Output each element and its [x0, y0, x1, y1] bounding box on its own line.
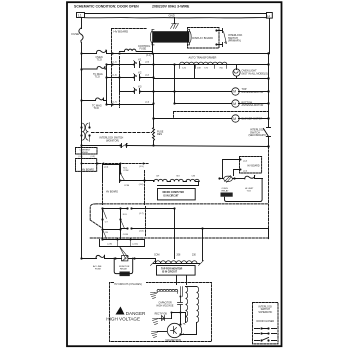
svg-text:COM: COM [154, 254, 159, 256]
svg-text:MAGNETRON: MAGNETRON [166, 339, 182, 342]
svg-text:COM: COM [123, 170, 128, 172]
wire dashed interconnect y163 [82, 163, 149, 165]
lamp oven light [233, 65, 240, 79]
switch col2 arm [121, 220, 125, 229]
svg-text:MICRO COMPUTER: MICRO COMPUTER [163, 192, 185, 194]
fuse AC line [96, 255, 105, 258]
pin labels rows [113, 62, 150, 104]
wire K3 feed vertical [120, 78, 135, 92]
svg-text:TCO: TCO [97, 59, 102, 62]
relay contact K1 [134, 59, 142, 68]
diode rectifier [160, 316, 172, 321]
svg-text:(J-4): (J-4) [104, 167, 109, 169]
svg-text:DISPLAY BOARD: DISPLAY BOARD [192, 36, 213, 40]
junction dots left bus [80, 52, 82, 146]
HV transformer primary [155, 289, 178, 293]
svg-text:(MONITOR): (MONITOR) [106, 139, 119, 142]
svg-text:M: M [233, 90, 236, 94]
svg-text:TCO: TCO [247, 191, 252, 193]
ground magnetron [152, 332, 158, 338]
relay contact K3 [134, 85, 142, 93]
svg-text:FA: FA [183, 323, 186, 326]
junction dot y180.6 [143, 179, 145, 181]
relay contact K2 row wire [107, 77, 154, 79]
svg-text:ANTENNA MOTOR: ANTENNA MOTOR [242, 91, 264, 94]
svg-text:COM: COM [124, 185, 129, 187]
lower tap labels [154, 254, 197, 256]
wire motor M1 row [175, 91, 269, 93]
svg-text:HV BOARD: HV BOARD [106, 191, 118, 194]
connector block loop [100, 240, 145, 247]
wire left bus mid [81, 43, 83, 259]
wire tap drop x194 [154, 65, 195, 79]
wire connector row y239.6 [103, 239, 145, 241]
svg-text:OVEN: OVEN [222, 188, 229, 190]
wire bottom row y104.4 [107, 104, 154, 106]
svg-text:HV BOARD: HV BOARD [248, 165, 260, 168]
motor M2 bottom antenna [232, 100, 239, 107]
svg-text:HV BOARD: HV BOARD [114, 30, 129, 34]
junction dots taps [152, 63, 175, 104]
svg-text:CB: CB [105, 232, 109, 234]
svg-text:(J-9): (J-9) [108, 244, 113, 246]
svg-text:RES: RES [157, 133, 162, 136]
svg-text:L1: L1 [78, 14, 82, 18]
junction dots relay row [218, 177, 235, 179]
relay board dashed top y111 [174, 112, 269, 119]
wire K3 row out [140, 91, 175, 93]
svg-text:L2: L2 [267, 14, 270, 18]
svg-text:(J-2): (J-2) [145, 75, 149, 77]
wire col1 vertical [102, 209, 104, 240]
svg-text:RECT-F-DB: RECT-F-DB [155, 314, 168, 316]
junction dots line y145.5 [119, 144, 127, 146]
ribbon cable to display board [150, 29, 191, 45]
svg-text:GND: GND [169, 14, 175, 18]
junction dots contact bases [133, 64, 142, 93]
border frame [67, 2, 282, 346]
svg-text:208: 208 [197, 68, 201, 70]
junction dots col1 [101, 207, 103, 240]
wire right bus upper [269, 19, 270, 128]
wire tap vertical x174.4 [174, 65, 176, 104]
thermal cutout HI LIMIT [245, 176, 263, 193]
svg-text:(J-4): (J-4) [145, 102, 149, 104]
contact row2 [126, 227, 132, 229]
coil tap labels [156, 176, 195, 178]
svg-text:M: M [233, 117, 236, 121]
svg-text:(J-6): (J-6) [113, 75, 117, 77]
HV circuit dashed box [110, 283, 212, 342]
relay contact K2 [134, 72, 142, 81]
note box below winding [157, 266, 196, 276]
HV transformer secondary [186, 287, 199, 323]
wire drops below winding [177, 276, 187, 285]
wire relay out y180.6 [121, 180, 154, 182]
svg-text:(SECONDARY): (SECONDARY) [249, 134, 267, 137]
svg-text:SCHEMATIC CONDITION: DOOR OPEN: SCHEMATIC CONDITION: DOOR OPEN [74, 5, 139, 9]
display board dashed box [188, 28, 220, 49]
svg-text:NO: NO [177, 176, 181, 178]
connector inline on left bus [82, 123, 90, 142]
junction dots line y53 [111, 52, 269, 54]
svg-text:HI LIMIT: HI LIMIT [245, 188, 254, 190]
terminal L2 [267, 13, 273, 19]
capacitor HV symbol [178, 297, 183, 313]
wire left bus from L1 [81, 18, 83, 29]
switch labels col2 [123, 214, 128, 236]
svg-text:RELAY: RELAY [222, 190, 230, 193]
svg-text:230: 230 [192, 254, 197, 256]
inductor control fuse choke [125, 49, 136, 51]
svg-text:(J-7): (J-7) [139, 213, 144, 215]
monitor switch label [100, 137, 124, 143]
svg-text:IS IN CIRCUIT: IS IN CIRCUIT [164, 195, 180, 197]
capacitor HV label [157, 302, 174, 308]
connector pins right box [240, 159, 242, 171]
wire sub bus x106.5 [106, 65, 108, 105]
ground symbol (mains) [171, 24, 179, 29]
svg-text:HIGH VOLTAGE: HIGH VOLTAGE [106, 317, 140, 322]
junction dots HV [171, 296, 182, 314]
svg-text:N.O.: N.O. [123, 214, 128, 216]
danger triangle [116, 307, 125, 315]
wire ground drop [174, 18, 176, 24]
junction dots connector [80, 126, 90, 136]
HV board dashed box (left lower) [76, 159, 97, 172]
oven relay label box [221, 188, 233, 197]
interlock schematic contact row 2 [255, 332, 277, 334]
switch labels CT CB [105, 221, 109, 234]
svg-text:(J-1): (J-1) [146, 55, 151, 57]
ground HV transformer [151, 293, 157, 299]
junction dots monitor row [80, 257, 135, 259]
wire monitor relay loop [114, 258, 133, 274]
wire motor M2 row [175, 103, 269, 105]
svg-text:(NOT IN ALL MODELS): (NOT IN ALL MODELS) [242, 72, 268, 75]
junction dots y163 [81, 163, 145, 165]
wire lamp line y78.5 [195, 78, 269, 80]
relay contact K1 row wire [107, 64, 177, 66]
HV board dashed box (right lower) [240, 157, 262, 174]
svg-text:FUSE: FUSE [140, 48, 147, 51]
title: schematic condition [74, 5, 139, 9]
motor M1 top antenna [232, 88, 239, 95]
svg-text:(PRIMARY): (PRIMARY) [228, 40, 241, 43]
wire blower row [154, 118, 269, 120]
svg-text:K3: K3 [138, 85, 142, 88]
title: voltage spec [152, 5, 190, 9]
svg-text:SENSE: SENSE [81, 152, 89, 154]
wire pins to relay [223, 160, 241, 179]
oven relay coil right [220, 176, 245, 183]
pin labels loop [108, 244, 139, 246]
svg-text:TCO: TCO [95, 76, 100, 79]
magnetron tube [158, 323, 182, 342]
svg-text:CAPACITOR: CAPACITOR [159, 302, 173, 305]
relay contact box monitor [119, 256, 130, 277]
svg-text:(J-3): (J-3) [243, 170, 247, 172]
current sense board dashed box [76, 148, 98, 155]
switch CT arm [103, 209, 107, 219]
wire line y53 to right bus [153, 53, 269, 55]
svg-text:(J-2): (J-2) [79, 156, 84, 158]
svg-text:CM: CM [192, 176, 196, 178]
wire center bus x153.3 [153, 54, 155, 128]
svg-text:750: 750 [219, 68, 223, 70]
svg-text:CH: CH [156, 176, 160, 178]
interlock switch schematic dashed box [253, 303, 279, 344]
svg-text:(J-11): (J-11) [133, 244, 139, 246]
danger text [106, 311, 146, 322]
micro computer box [158, 189, 196, 200]
wire col2 vertical [120, 209, 122, 240]
svg-text:SCHEMATIC: SCHEMATIC [258, 311, 272, 314]
pin drops [118, 240, 131, 247]
junction dot resistor top [152, 117, 154, 146]
svg-text:BLOWER MOTOR: BLOWER MOTOR [242, 118, 263, 121]
thermal cutout OVEN TCO [97, 50, 107, 53]
svg-text:HIGH VOLTAGE: HIGH VOLTAGE [157, 305, 174, 308]
motor M3 blower [232, 115, 239, 122]
wire main line y145.5 [82, 146, 269, 147]
svg-text:RELAY: RELAY [120, 268, 128, 271]
svg-text:HV CIRCUIT (2 PLACES): HV CIRCUIT (2 PLACES) [114, 283, 142, 286]
switch cook relay left [120, 164, 130, 188]
junction dots sub bus [105, 63, 120, 105]
svg-text:208/230V 60Hz 3-WIRE: 208/230V 60Hz 3-WIRE [152, 5, 190, 9]
svg-text:TAP FOR MONITOR: TAP FOR MONITOR [161, 268, 183, 271]
HV transformer core [181, 287, 183, 297]
svg-text:(J-8): (J-8) [145, 62, 149, 64]
terminal L1 [77, 13, 85, 18]
svg-text:K1: K1 [138, 59, 142, 62]
wire top lower conductor [85, 17, 267, 19]
svg-text:COM: COM [123, 234, 128, 236]
monitor switch contact [121, 144, 128, 148]
junction dots loop [117, 239, 132, 241]
relay coil winding row [154, 179, 200, 185]
svg-text:HV BOARD: HV BOARD [82, 169, 94, 172]
interlock schematic contact row 3 open [255, 338, 277, 342]
svg-text:FUSE: FUSE [95, 269, 101, 271]
svg-text:AUTO TRANSFORMER: AUTO TRANSFORMER [189, 56, 217, 60]
svg-text:(J-8): (J-8) [139, 231, 144, 233]
monitor switch lower arm [120, 247, 128, 259]
svg-text:IS IN CIRCUIT: IS IN CIRCUIT [162, 272, 178, 274]
interlock schematic contact row 1 [255, 327, 277, 329]
wire row y208.9 [103, 208, 175, 210]
svg-text:208: 208 [177, 254, 182, 256]
svg-text:DOOR CLOSED: DOOR CLOSED [256, 320, 274, 323]
auto transformer winding [177, 62, 227, 68]
connector labels J2 J3 [79, 156, 96, 158]
thermal cutout TC MAG TCO upper [81, 66, 107, 69]
resistor sense on center bus [153, 128, 164, 146]
svg-text:FUSE: FUSE [72, 32, 80, 36]
switch board dashed box middle [90, 204, 268, 238]
interlock switch primary [217, 29, 227, 47]
junction dots col2 [119, 207, 121, 230]
switch CB arm [103, 230, 107, 239]
svg-text:MONITOR: MONITOR [119, 266, 130, 268]
interlock switch secondary on right bus [264, 128, 271, 137]
pin labels J7 J8 [139, 213, 144, 232]
svg-text:ANTENNA MOTOR: ANTENNA MOTOR [242, 104, 264, 107]
wire tap drop x174.5 [174, 209, 176, 259]
junction dots taps mid [173, 207, 203, 229]
wire relay loop [225, 179, 263, 202]
svg-text:DANGER: DANGER [126, 311, 146, 316]
junction dots right bus rows [152, 63, 269, 147]
wire ribbon drop [152, 43, 154, 54]
svg-text:(J-6): (J-6) [139, 184, 144, 186]
board edge dashed x145.5 [145, 207, 147, 237]
svg-text:AC LINE: AC LINE [93, 265, 102, 268]
thermal cutout TC MAG TCO lower [81, 98, 107, 105]
relay box middle [103, 165, 120, 183]
junction dots display board pins [215, 29, 217, 45]
svg-text:(J-5): (J-5) [139, 166, 144, 168]
svg-text:TCO: TCO [94, 107, 99, 110]
svg-text:575: 575 [204, 68, 208, 70]
dashed box small mid [103, 171, 145, 205]
wire diode node [172, 313, 186, 319]
svg-text:M: M [233, 102, 236, 106]
transformer tap winding lower [151, 259, 204, 266]
wire right bus lower [268, 137, 270, 147]
svg-text:120: 120 [182, 68, 186, 70]
wire main hot line y53 [82, 53, 153, 55]
magnetron terminals [179, 313, 196, 336]
wire top upper conductor [85, 13, 267, 15]
wire row y228.4 [103, 229, 269, 239]
svg-text:K2: K2 [138, 72, 142, 75]
svg-text:(J-3): (J-3) [91, 156, 96, 158]
wire monitor row y258.1 [82, 258, 156, 260]
ground diode [153, 319, 160, 325]
HV board dashed box (upper) [112, 29, 147, 108]
svg-text:(J-7): (J-7) [113, 102, 117, 104]
contact row1 [126, 207, 132, 209]
transformer tap labels [182, 68, 223, 70]
svg-text:(J-5): (J-5) [113, 62, 117, 64]
linkage dashed monitor [92, 132, 152, 134]
wire transformer out to bus [225, 64, 269, 66]
wire coil baseline [158, 185, 199, 187]
svg-text:CT: CT [105, 221, 109, 223]
wire tap drop x202.5 [202, 229, 204, 261]
fuse F1 [79, 28, 83, 42]
svg-text:(J-2): (J-2) [243, 160, 247, 162]
